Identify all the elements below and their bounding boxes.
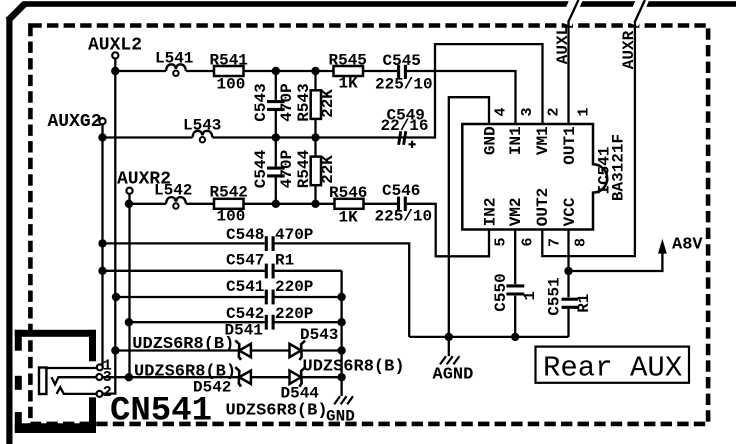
svg-text:C544: C544 [252, 149, 270, 188]
capacitor C551 [546, 271, 578, 337]
resistor R542 [210, 184, 248, 209]
node AUXG2 terminal label [48, 112, 102, 132]
pin number 1 of CN541 [103, 358, 112, 375]
junction ground bus D544 [337, 373, 345, 381]
svg-text:VCC: VCC [561, 197, 579, 226]
junction rail C550 [511, 333, 519, 341]
svg-text:C548: C548 [226, 226, 264, 244]
svg-text:R1: R1 [575, 294, 593, 313]
ground GND symbol [326, 396, 355, 425]
junction row3 C544 [272, 200, 280, 208]
svg-text:BA3121F: BA3121F [610, 134, 628, 201]
junction row1 C543 [272, 67, 280, 75]
value 220P of C542 [275, 305, 313, 323]
type UDZS6R8(B) of D541 [132, 335, 234, 354]
wire L543 to C549 [213, 44, 543, 137]
svg-text:C546: C546 [382, 182, 420, 200]
diode D541 zener [225, 322, 263, 360]
wire R541 to R545 [244, 70, 334, 72]
svg-text:OUT1: OUT1 [561, 126, 579, 164]
svg-text:IN1: IN1 [507, 126, 525, 155]
border gap for AUXR exit [632, 0, 643, 24]
svg-text:R1: R1 [275, 252, 294, 270]
frame left border [6, 17, 12, 444]
capacitor C544 [252, 138, 285, 204]
svg-text:8: 8 [573, 238, 590, 247]
svg-text:R545: R545 [329, 52, 367, 70]
svg-text:C542: C542 [226, 305, 264, 323]
svg-text:C551: C551 [546, 277, 564, 315]
label Rear AUX box [536, 347, 690, 385]
junction AUXR2 D542 [125, 373, 133, 381]
pin 2 circle [97, 391, 103, 397]
wire L542 to R542 [186, 203, 214, 205]
label IC541 [596, 146, 614, 194]
junction ground bus D543 [337, 346, 345, 354]
pin number 5 [493, 237, 510, 246]
wire R542 to R546 [244, 203, 335, 205]
junction rail GND line [445, 333, 453, 341]
wire C547 left [103, 270, 265, 272]
pin number 3 [519, 107, 536, 116]
svg-text:100: 100 [217, 208, 246, 226]
wire row3 AUXR2 to L542 [129, 203, 166, 205]
capacitor C542 [226, 305, 273, 330]
wire row2 AUXG2 to L543 [103, 136, 193, 138]
svg-text:UDZS6R8(B): UDZS6R8(B) [303, 358, 405, 377]
wire C548 to AGND rail [275, 243, 410, 337]
svg-text:22/16: 22/16 [381, 117, 429, 135]
svg-text:220P: 220P [275, 305, 313, 323]
ground AGND symbol [433, 337, 474, 384]
value 220P of C541 [275, 278, 313, 296]
value R1 of C551 [575, 294, 593, 313]
wire AUXL exit diagonal [569, 0, 579, 22]
value 1K of R546 [339, 209, 359, 227]
value R1 of C547 [275, 252, 294, 270]
svg-text:OUT2: OUT2 [534, 188, 552, 226]
wire C546 to IC pin5 [407, 204, 489, 256]
value 470P of C544 [278, 150, 296, 188]
node AUXL2 terminal circle [112, 52, 118, 58]
jack ring contact [52, 377, 97, 384]
svg-text:C550: C550 [492, 273, 510, 311]
svg-text:L541: L541 [155, 50, 193, 68]
wire R545 to C545 [363, 70, 397, 72]
diode D542 zener [193, 367, 251, 396]
pin number 2 of CN541 [103, 384, 112, 401]
svg-text:100: 100 [217, 76, 246, 94]
svg-text:AUXG2: AUXG2 [48, 112, 102, 132]
wire C542 to ground bus [275, 321, 342, 323]
frame chamfer corner [8, 4, 25, 21]
value 1 of C550 [521, 291, 539, 301]
pin number 3 of CN541 [103, 369, 112, 386]
resistor R541 [210, 52, 248, 77]
pin name GND [481, 126, 499, 155]
op-amp IC541 body [462, 124, 607, 230]
svg-text:470P: 470P [278, 83, 296, 121]
svg-text:R544: R544 [295, 149, 313, 188]
svg-text:22K: 22K [319, 89, 337, 118]
svg-text:220P: 220P [275, 278, 313, 296]
junction AUXL2 C541 [112, 293, 120, 301]
capacitor C550 [492, 230, 525, 337]
resistor R543 [295, 71, 321, 138]
svg-text:3: 3 [519, 107, 536, 116]
wire AGND rail [409, 336, 568, 338]
capacitor C541 [226, 278, 273, 304]
wire AUXG2 bus vertical [101, 124, 103, 365]
pin name VCC [561, 197, 579, 226]
svg-text:470P: 470P [278, 150, 296, 188]
border gap for AUXL exit [566, 0, 577, 24]
value 1K of R545 [339, 75, 359, 93]
wire R546 to C546 [364, 203, 398, 205]
pin name VM1 [534, 126, 552, 155]
svg-text:UDZS6R8(B): UDZS6R8(B) [134, 363, 236, 382]
value 22K of R544 [319, 155, 337, 184]
svg-text:1K: 1K [339, 75, 359, 93]
capacitor C545 [383, 52, 421, 79]
wire row1 AUXL2 to L541 [115, 70, 166, 72]
node AUXR2 terminal circle [126, 188, 132, 194]
junction row2 C543 [272, 133, 280, 141]
wire C547 to ground bus [275, 270, 342, 272]
capacitor C548 [226, 226, 273, 251]
svg-text:GND: GND [481, 126, 499, 155]
value 22/16 of C549 [381, 117, 429, 135]
wire AUXR exit diagonal [635, 0, 645, 22]
junction VCC node [564, 267, 572, 275]
svg-text:4: 4 [493, 107, 510, 116]
label CN541 [110, 393, 212, 431]
svg-text:GND: GND [326, 408, 355, 426]
svg-text:22K: 22K [319, 155, 337, 184]
svg-text:D544: D544 [281, 385, 320, 403]
resistor R545 [329, 52, 367, 77]
svg-text:VM2: VM2 [507, 197, 525, 226]
svg-text:R546: R546 [329, 184, 367, 202]
type UDZS6R8(B) of D542 [134, 363, 236, 382]
svg-text:C541: C541 [226, 278, 264, 296]
wire pin8 VCC down [567, 230, 569, 272]
svg-text:CN541: CN541 [110, 393, 212, 431]
capacitor C547 [226, 252, 273, 279]
wire VCC to A8V arrow [569, 253, 663, 271]
junction ground bus C542 [337, 318, 345, 326]
frame top border [23, 1, 736, 7]
wire C541 left [116, 296, 265, 298]
svg-text:R542: R542 [210, 184, 248, 202]
pin name IN1 [507, 126, 525, 155]
node AUXG2 terminal circle [99, 118, 105, 124]
pin number 6 [520, 237, 537, 246]
junction AUXL2 D541 [111, 346, 119, 354]
type UDZS6R8(B) of D543 [303, 358, 405, 377]
diode D544 zener [281, 367, 320, 402]
svg-text:2: 2 [103, 384, 112, 401]
svg-text:5: 5 [493, 237, 510, 246]
junction AUXG2 row2 [98, 133, 106, 141]
type BA3121F [610, 134, 628, 201]
svg-text:IN2: IN2 [481, 197, 499, 226]
svg-text:UDZS6R8(B): UDZS6R8(B) [132, 335, 234, 354]
capacitor C546 [382, 182, 420, 211]
value 470P of C543 [278, 83, 296, 121]
node AUXR label [620, 30, 638, 69]
svg-text:1: 1 [521, 291, 539, 301]
connector CN541 shell [15, 330, 96, 433]
wire C542 left [129, 321, 265, 323]
pin number 8 [573, 238, 590, 247]
junction AUXG2 C547 [98, 267, 106, 275]
svg-text:D543: D543 [300, 326, 338, 344]
junction AUXR2 C542 [125, 318, 133, 326]
junction AUXR2 row3 [125, 200, 133, 208]
svg-text:225/10: 225/10 [375, 76, 433, 94]
jack tip contact [39, 368, 46, 395]
type UDZS6R8(B) of D544 [226, 402, 328, 421]
svg-text:L543: L543 [183, 117, 221, 135]
value 100 of R541 [217, 76, 246, 94]
junction row3 R544 [311, 200, 319, 208]
pin 1 circle [97, 364, 103, 370]
value 225/10 of C545 [375, 76, 433, 94]
wire jack tip to pin1 [46, 367, 96, 369]
value 470P of C548 [275, 226, 313, 244]
wire pin1 OUT1 to AUXL [567, 21, 569, 124]
svg-text:2: 2 [546, 107, 563, 116]
inductor L542 [154, 182, 192, 209]
wire pin7 OUT2 to AUXR [542, 21, 635, 256]
svg-text:C547: C547 [226, 252, 264, 270]
pin number 2 [546, 107, 563, 116]
svg-text:470P: 470P [275, 226, 313, 244]
inductor L541 [155, 50, 193, 76]
wire D542 row [102, 376, 341, 378]
wire C541 to ground bus [275, 296, 342, 298]
svg-text:VM1: VM1 [534, 126, 552, 155]
svg-text:7: 7 [547, 238, 564, 247]
pin number 7 [547, 238, 564, 247]
wire C545 to IC pin3 [407, 71, 516, 124]
svg-text:R543: R543 [295, 83, 313, 121]
junction AUXG2 C548 [98, 239, 106, 247]
pin name OUT1 [561, 126, 579, 164]
wire AUXR2 bus vertical [128, 194, 130, 377]
svg-text:R541: R541 [210, 52, 248, 70]
junction row1 R543 [311, 67, 319, 75]
pin number 1 [576, 107, 593, 116]
pin 3 circle [96, 374, 102, 380]
svg-text:AGND: AGND [433, 365, 474, 384]
diode D543 zener [290, 326, 339, 360]
svg-text:C545: C545 [383, 52, 421, 70]
svg-text:6: 6 [520, 237, 537, 246]
svg-text:C543: C543 [252, 83, 270, 121]
value 225/10 of C546 [375, 208, 433, 226]
wire L541 to R541 [186, 70, 214, 72]
svg-text:A8V: A8V [672, 236, 703, 255]
node AUXL label [554, 26, 572, 64]
svg-text:1K: 1K [339, 209, 359, 227]
jack sleeve contact [57, 387, 97, 394]
svg-text:1: 1 [576, 107, 593, 116]
resistor R544 [295, 138, 321, 204]
wire pin4 GND to AGND rail [449, 97, 489, 337]
wire D541 row [115, 349, 341, 351]
junction ground bus C541 [337, 293, 345, 301]
capacitor C543 [252, 71, 285, 138]
pin name VM2 [507, 197, 525, 226]
node AUXR2 terminal label [117, 170, 171, 190]
svg-text:Rear AUX: Rear AUX [543, 352, 682, 385]
node AUXL2 terminal label [88, 36, 142, 56]
pin name OUT2 [534, 188, 552, 226]
svg-text:UDZS6R8(B): UDZS6R8(B) [226, 402, 328, 421]
wire ground bus vertical [340, 271, 342, 396]
resistor R546 [329, 184, 367, 209]
junction AUXL2 row1 [111, 67, 119, 75]
wire AUXL2 bus vertical [103, 59, 116, 394]
value 100 of R542 [217, 208, 246, 226]
svg-text:225/10: 225/10 [375, 208, 433, 226]
inductor L543 [183, 117, 221, 143]
power A8V arrow [658, 236, 703, 255]
wire C548 left [103, 242, 265, 244]
value 22K of R543 [319, 89, 337, 118]
pin number 4 [493, 107, 510, 116]
svg-text:L542: L542 [154, 182, 192, 200]
polarity plus of C549 [409, 141, 416, 148]
junction row2 R543 [311, 133, 319, 141]
pin name IN2 [481, 197, 499, 226]
capacitor C549 electrolytic [387, 106, 425, 145]
